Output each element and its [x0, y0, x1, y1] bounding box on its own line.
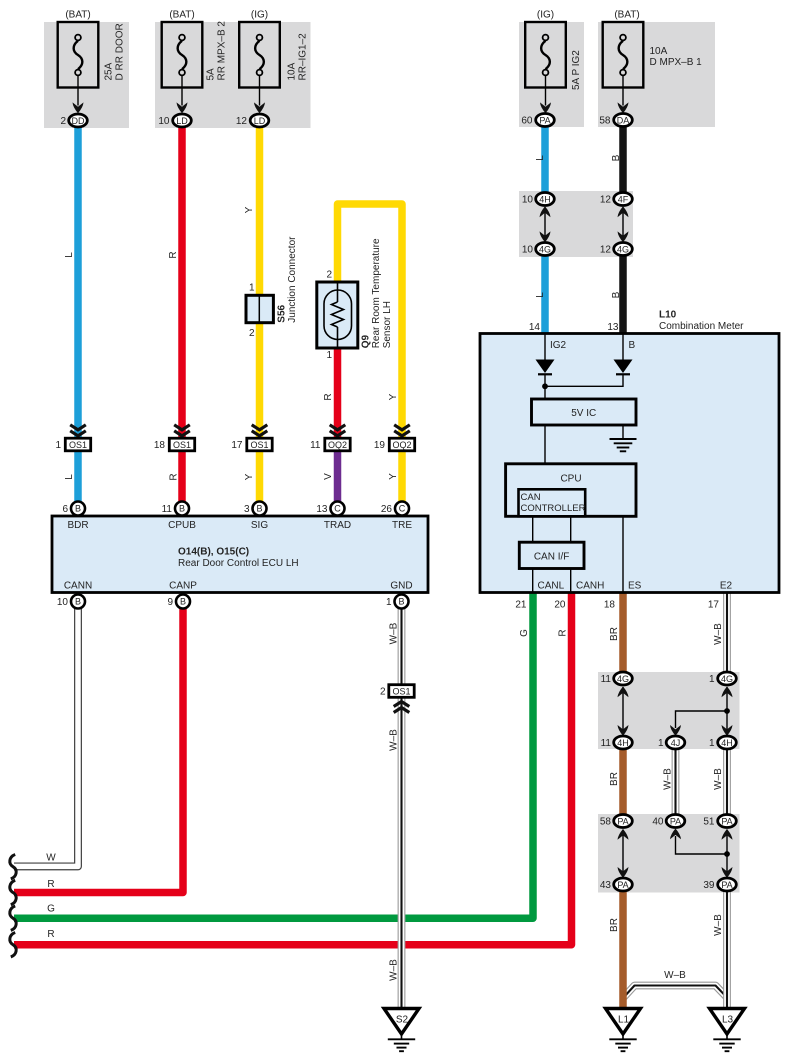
- svg-text:(BAT): (BAT): [614, 10, 639, 21]
- svg-text:2: 2: [380, 687, 386, 698]
- wire CAN I/F to pin CANH: [570, 569, 572, 593]
- wire R red from Q9 pin 1 to connector 11 OQ2: [334, 347, 342, 445]
- svg-text:L: L: [535, 155, 546, 161]
- svg-text:58: 58: [600, 817, 612, 828]
- svg-text:1: 1: [386, 597, 392, 608]
- svg-text:17: 17: [231, 440, 243, 451]
- wire W white from ECU pin CANN to left edge: [14, 594, 78, 866]
- internal ground symbol: [610, 438, 637, 440]
- connector 1 4H: [718, 736, 737, 749]
- ECU pin 1 B GND: [395, 595, 409, 609]
- svg-text:L: L: [64, 252, 75, 258]
- svg-text:4H: 4H: [617, 738, 629, 748]
- svg-text:RR MPX–B 2: RR MPX–B 2: [216, 21, 227, 81]
- svg-text:17: 17: [708, 600, 720, 611]
- sensor Q9 Rear Room Temperature Sensor LH: [317, 282, 358, 348]
- wire inside meter IG2 to diode: [544, 334, 546, 360]
- wire W-B from junction 39 PA to ground L3: [723, 890, 731, 1011]
- connector 10 4G: [536, 243, 555, 256]
- svg-text:OQ2: OQ2: [328, 440, 347, 450]
- svg-text:W–B: W–B: [713, 768, 724, 790]
- wire Y yellow loop from Q9 pin 2 to connector 19 OQ2: [338, 204, 403, 445]
- svg-text:10A: 10A: [650, 46, 668, 57]
- connector 11 4G: [614, 672, 633, 685]
- CPU box: [506, 464, 636, 517]
- svg-text:BR: BR: [609, 627, 620, 641]
- fuse block background D MPX-B 1: [598, 22, 715, 127]
- svg-text:12: 12: [236, 116, 248, 127]
- arrow into connector 17 OS1: [252, 425, 268, 430]
- svg-text:B: B: [398, 597, 404, 607]
- arrow into connector 11 OQ2: [330, 425, 346, 430]
- svg-text:1: 1: [326, 350, 332, 361]
- svg-text:ES: ES: [628, 581, 642, 592]
- svg-text:CANL: CANL: [538, 581, 565, 592]
- svg-text:(BAT): (BAT): [169, 10, 194, 21]
- svg-text:20: 20: [554, 600, 566, 611]
- svg-text:11: 11: [601, 738, 612, 749]
- wire CPU to pin ES: [622, 516, 624, 592]
- regulator 5V IC box: [532, 399, 637, 425]
- fuse block background P IG2: [519, 22, 584, 127]
- svg-text:Y: Y: [388, 473, 399, 480]
- svg-text:R: R: [47, 879, 54, 890]
- svg-text:Rear Room Temperature: Rear Room Temperature: [371, 238, 382, 348]
- svg-text:(IG): (IG): [537, 10, 554, 21]
- svg-text:B: B: [629, 340, 636, 351]
- svg-text:W: W: [46, 853, 56, 864]
- svg-text:W–B: W–B: [713, 623, 724, 645]
- svg-text:4F: 4F: [618, 194, 629, 204]
- arrow into connector 2 OS1: [394, 702, 410, 707]
- fuse block background RR MPX-B 2 / RR-IG1-2: [155, 22, 311, 128]
- svg-text:TRAD: TRAD: [324, 520, 351, 531]
- svg-text:CANN: CANN: [64, 581, 92, 592]
- connector 2 OS1 on GND wire: [389, 685, 414, 698]
- connector 19 OQ2: [389, 438, 414, 451]
- fuse 5A P IG2: [525, 22, 566, 88]
- svg-text:Rear Door Control ECU LH: Rear Door Control ECU LH: [178, 558, 299, 569]
- svg-text:PA: PA: [721, 880, 732, 890]
- svg-text:5A P IG2: 5A P IG2: [571, 50, 582, 90]
- svg-text:13: 13: [607, 322, 619, 333]
- junction block background 4G/4H/4J lower: [598, 672, 740, 749]
- svg-text:L: L: [535, 292, 546, 298]
- connector 11 OQ2: [325, 438, 350, 451]
- svg-text:4H: 4H: [721, 738, 733, 748]
- ground L1: [606, 1009, 641, 1035]
- connector 10 4H: [536, 193, 555, 206]
- svg-text:RR–IG1–2: RR–IG1–2: [297, 33, 308, 81]
- svg-text:CAN: CAN: [521, 492, 541, 503]
- svg-text:Y: Y: [244, 206, 255, 213]
- svg-text:1: 1: [709, 738, 715, 749]
- connector 12 4F: [614, 193, 633, 206]
- svg-text:11: 11: [310, 440, 321, 451]
- svg-text:Q9: Q9: [360, 335, 371, 349]
- svg-text:W–B: W–B: [389, 729, 400, 751]
- svg-text:4G: 4G: [617, 674, 629, 684]
- svg-text:OQ2: OQ2: [392, 440, 411, 450]
- svg-text:OS1: OS1: [250, 440, 268, 450]
- connector 39 PA: [718, 878, 737, 891]
- fuse 10A RR-IG1-2: [239, 22, 280, 88]
- svg-text:OS1: OS1: [69, 440, 87, 450]
- fuse block background D RR DOOR: [44, 22, 129, 128]
- svg-text:60: 60: [521, 116, 533, 127]
- junction pass-through arrows 4H-4G left: [544, 207, 546, 241]
- connector 1 4J: [666, 736, 685, 749]
- svg-text:W–B: W–B: [389, 622, 400, 644]
- wire W-B from junction 1 4H to junction 51 PA: [723, 747, 731, 816]
- svg-text:4G: 4G: [721, 674, 733, 684]
- svg-text:BR: BR: [609, 772, 620, 786]
- junction pass-through arrows 4G-4H brown column: [622, 687, 624, 735]
- svg-text:C: C: [334, 504, 341, 514]
- wire BR brown from junction 11 4H to junction 58 PA: [619, 747, 627, 816]
- connector 12 LD: [250, 114, 269, 127]
- wire L blue from fuse D RR DOOR to ECU pin BDR: [74, 126, 82, 503]
- connector 60 PA: [536, 114, 555, 127]
- wire W-B from ECU pin GND through 2 OS1 to ground S2: [398, 594, 406, 1011]
- svg-text:10A: 10A: [287, 62, 298, 80]
- svg-text:L1: L1: [618, 1015, 630, 1026]
- CAN I/F box: [519, 542, 584, 568]
- svg-text:W–B: W–B: [389, 959, 400, 981]
- svg-text:SIG: SIG: [251, 520, 268, 531]
- svg-text:PA: PA: [721, 816, 732, 826]
- svg-text:4H: 4H: [539, 194, 551, 204]
- svg-text:1: 1: [55, 440, 61, 451]
- wire CAN I/F to pin CANL: [532, 569, 534, 593]
- break symbol wire R CANH: [10, 933, 16, 957]
- svg-text:11: 11: [162, 504, 173, 515]
- CAN CONTROLLER box: [519, 489, 586, 516]
- svg-text:DA: DA: [617, 115, 630, 125]
- arrow into connector 18 OS1: [174, 425, 190, 430]
- svg-text:58: 58: [599, 116, 611, 127]
- svg-text:19: 19: [374, 440, 386, 451]
- junction pass-through arrows 4G-4H-4J white column: [726, 687, 728, 735]
- junction pass-through arrows 4F-4G right: [622, 207, 624, 241]
- svg-text:(IG): (IG): [251, 10, 268, 21]
- svg-text:E2: E2: [720, 581, 733, 592]
- svg-text:CONTROLLER: CONTROLLER: [521, 503, 586, 514]
- svg-text:4J: 4J: [671, 738, 681, 748]
- wire R red from Combination Meter pin CANH to left edge: [14, 592, 572, 945]
- svg-text:S56: S56: [276, 304, 287, 322]
- svg-text:BDR: BDR: [67, 520, 88, 531]
- svg-text:R: R: [558, 629, 569, 636]
- svg-text:OS1: OS1: [173, 440, 191, 450]
- ECU pin 9 B CANP: [176, 595, 190, 609]
- svg-text:LD: LD: [254, 116, 266, 126]
- wire inside meter B to diode: [622, 334, 624, 360]
- svg-text:12: 12: [600, 245, 612, 256]
- diode D2 B: [614, 360, 633, 374]
- break symbol wire W: [10, 855, 16, 879]
- junction connector S56: [246, 295, 273, 322]
- connector 11 4H: [614, 736, 633, 749]
- svg-text:10: 10: [158, 116, 170, 127]
- svg-text:3: 3: [244, 504, 250, 515]
- svg-text:B: B: [75, 597, 81, 607]
- svg-text:13: 13: [316, 504, 328, 515]
- svg-text:D RR DOOR: D RR DOOR: [114, 23, 125, 80]
- svg-text:2: 2: [326, 270, 332, 281]
- wire 5V IC to CPU: [544, 425, 546, 464]
- svg-text:B: B: [611, 291, 622, 298]
- svg-text:1: 1: [658, 738, 664, 749]
- connector 17 OS1: [247, 438, 272, 451]
- wire CAN CONTROLLER to CAN I/F CANL side: [532, 516, 534, 542]
- wire L blue from fuse P IG2 to junction 10 4H: [541, 126, 549, 194]
- wire Y yellow from fuse RR-IG1-2 through S56 to ECU pin SIG: [256, 126, 264, 503]
- svg-text:CPU: CPU: [560, 474, 581, 485]
- svg-text:(BAT): (BAT): [65, 10, 90, 21]
- wire L blue from junction 10 4G to Combination Meter pin 14: [541, 254, 549, 334]
- fuse 10A D MPX-B 1: [603, 22, 644, 88]
- svg-text:G: G: [47, 904, 55, 915]
- svg-text:V: V: [323, 473, 334, 480]
- svg-text:Sensor LH: Sensor LH: [382, 301, 393, 348]
- svg-text:10: 10: [522, 195, 534, 206]
- svg-text:Junction Connector: Junction Connector: [287, 236, 298, 323]
- svg-text:G: G: [519, 629, 530, 637]
- svg-text:10: 10: [57, 597, 69, 608]
- svg-text:26: 26: [381, 504, 393, 515]
- ECU pin 10 B CANN: [71, 595, 85, 609]
- svg-text:1: 1: [249, 283, 255, 294]
- svg-text:PA: PA: [539, 115, 550, 125]
- svg-text:TRE: TRE: [392, 520, 412, 531]
- svg-text:OS1: OS1: [392, 686, 410, 696]
- svg-text:2: 2: [60, 116, 66, 127]
- svg-text:BR: BR: [609, 918, 620, 932]
- wire W-B jumper between ground L1 and ground L3: [624, 986, 728, 998]
- svg-text:PA: PA: [617, 880, 628, 890]
- svg-text:18: 18: [604, 600, 616, 611]
- svg-text:B: B: [611, 154, 622, 161]
- arrow into connector 19 OQ2: [394, 425, 410, 430]
- wire 5V IC to internal ground: [622, 425, 624, 439]
- svg-text:51: 51: [703, 817, 715, 828]
- svg-text:43: 43: [600, 880, 612, 891]
- junction pass-through arrows PA brown column: [622, 830, 624, 878]
- wire V violet from connector 11 OQ2 to ECU pin TRAD: [334, 450, 342, 503]
- junction block background PA lower: [598, 814, 740, 893]
- wire BR brown from junction 43 PA to ground L1: [619, 890, 627, 1011]
- svg-text:W–B: W–B: [713, 914, 724, 936]
- svg-text:W–B: W–B: [663, 768, 674, 790]
- svg-text:S2: S2: [396, 1015, 409, 1026]
- connector 43 PA: [614, 878, 633, 891]
- arrow into connector 1 OS1: [70, 425, 86, 430]
- svg-text:Combination Meter: Combination Meter: [659, 321, 744, 332]
- svg-text:B: B: [180, 597, 186, 607]
- svg-text:9: 9: [167, 597, 173, 608]
- svg-text:5V IC: 5V IC: [571, 408, 596, 419]
- svg-text:11: 11: [601, 674, 612, 685]
- break symbol wire G: [10, 906, 16, 930]
- wire BR brown from Combination Meter pin ES to junction 11 4G: [619, 592, 627, 674]
- svg-text:R: R: [47, 929, 54, 940]
- svg-text:14: 14: [529, 322, 541, 333]
- Combination Meter L10 box: [480, 334, 779, 593]
- svg-text:2: 2: [249, 328, 255, 339]
- svg-text:18: 18: [154, 440, 166, 451]
- junction block background 4H/4G: [519, 191, 633, 257]
- fuse 25A D RR DOOR: [58, 22, 99, 88]
- svg-text:CPUB: CPUB: [168, 520, 196, 531]
- connector 1 OS1: [65, 438, 90, 451]
- ECU pin 6 B BDR: [71, 502, 85, 516]
- ground S2: [384, 1009, 419, 1035]
- svg-text:B: B: [256, 504, 262, 514]
- svg-text:10: 10: [522, 245, 534, 256]
- connector 18 OS1: [169, 438, 194, 451]
- ECU O14(B) O15(C) Rear Door Control ECU LH box: [52, 516, 428, 593]
- node junction dot 4G branch: [724, 708, 730, 714]
- ECU pin 13 C TRAD: [331, 502, 345, 516]
- svg-text:LD: LD: [176, 116, 188, 126]
- svg-text:R: R: [168, 251, 179, 258]
- connector 58 DA: [614, 114, 633, 127]
- svg-text:C: C: [399, 504, 406, 514]
- ECU pin 3 B SIG: [253, 502, 267, 516]
- svg-text:L3: L3: [722, 1015, 734, 1026]
- wire R red from ECU pin CANP to left edge: [14, 594, 183, 893]
- svg-text:L: L: [64, 474, 75, 480]
- wire G green from Combination Meter pin CANL to left edge: [14, 592, 533, 918]
- svg-text:39: 39: [703, 880, 715, 891]
- connector 40 PA: [666, 815, 685, 828]
- svg-text:L10: L10: [659, 310, 677, 321]
- svg-text:CANP: CANP: [169, 581, 197, 592]
- wire Y yellow from connector 19 OQ2 to ECU pin TRE: [398, 450, 406, 503]
- svg-text:Y: Y: [244, 473, 255, 480]
- svg-text:Y: Y: [388, 393, 399, 400]
- svg-text:B: B: [75, 504, 81, 514]
- svg-text:12: 12: [600, 195, 612, 206]
- wire B black from junction 12 4G to Combination Meter pin 13: [619, 254, 627, 334]
- svg-text:B: B: [179, 504, 185, 514]
- wire R red from fuse RR MPX-B 2 to ECU pin CPUB: [178, 126, 186, 503]
- svg-text:4G: 4G: [617, 244, 629, 254]
- svg-text:D MPX–B 1: D MPX–B 1: [650, 57, 703, 68]
- wire diode outputs to node: [544, 374, 546, 399]
- svg-text:5A: 5A: [206, 68, 217, 81]
- svg-text:CANH: CANH: [576, 581, 604, 592]
- svg-text:W–B: W–B: [664, 970, 686, 981]
- node junction dot PA branch: [724, 851, 730, 857]
- connector 58 PA: [614, 815, 633, 828]
- wire CAN CONTROLLER to CAN I/F CANH side: [570, 516, 572, 542]
- svg-text:PA: PA: [670, 816, 681, 826]
- svg-text:IG2: IG2: [550, 340, 567, 351]
- svg-text:1: 1: [709, 674, 715, 685]
- svg-text:21: 21: [515, 600, 527, 611]
- svg-text:DD: DD: [72, 116, 85, 126]
- wire W-B from Combination Meter pin E2 to junction 1 4G: [723, 592, 731, 674]
- connector 1 4G: [718, 672, 737, 685]
- svg-text:25A: 25A: [104, 62, 115, 80]
- break symbol wire R CANP: [10, 880, 16, 904]
- svg-text:CAN I/F: CAN I/F: [534, 552, 570, 563]
- svg-text:PA: PA: [617, 816, 628, 826]
- svg-text:40: 40: [652, 817, 664, 828]
- fuse 5A RR MPX-B 2: [162, 22, 203, 88]
- wire W-B from junction 1 4J to junction 40 PA: [672, 747, 680, 816]
- ground L3: [710, 1009, 745, 1035]
- connector 51 PA: [718, 815, 737, 828]
- svg-text:4G: 4G: [539, 244, 551, 254]
- svg-text:O14(B), O15(C): O14(B), O15(C): [178, 547, 249, 558]
- svg-text:GND: GND: [390, 581, 412, 592]
- junction pass-through arrows PA white column: [726, 830, 728, 878]
- svg-text:6: 6: [62, 504, 68, 515]
- node junction dot diodes: [542, 383, 548, 389]
- svg-text:R: R: [323, 393, 334, 400]
- connector 10 LD: [173, 114, 192, 127]
- diode D1 IG2: [536, 360, 555, 374]
- ECU pin 26 C TRE: [395, 502, 409, 516]
- wire B black from fuse D MPX-B 1 to junction 12 4F: [619, 126, 627, 194]
- connector 12 4G: [614, 243, 633, 256]
- ECU pin 11 B CPUB: [175, 502, 189, 516]
- connector 2 DD: [69, 114, 88, 127]
- svg-text:R: R: [169, 473, 180, 480]
